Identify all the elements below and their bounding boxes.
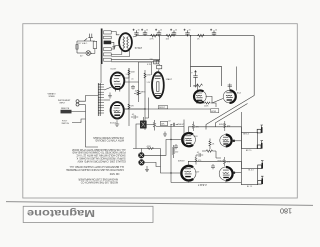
svg-text:1MEG: 1MEG: [140, 92, 146, 94]
junction dot y109: [144, 108, 145, 109]
junction square V7: [233, 140, 235, 142]
svg-text:6V6GT: 6V6GT: [178, 161, 185, 163]
resistor R16: [202, 150, 216, 152]
svg-text:20: 20: [175, 29, 177, 31]
speaker jack J7: [258, 176, 264, 184]
svg-text:.05: .05: [197, 152, 200, 154]
svg-text:INPUT: INPUT: [60, 102, 67, 104]
wire V1 to V3: [124, 62, 151, 82]
wire T2 top: [136, 117, 143, 149]
filter cap C1: [133, 29, 139, 36]
ground mid: [163, 132, 167, 137]
tap 5V heater a: [111, 51, 122, 55]
wire x160 junction: [161, 149, 172, 174]
wire P2 right: [145, 162, 161, 166]
svg-text:.02: .02: [135, 90, 138, 92]
wire V1 grid: [104, 87, 112, 90]
resistor R25 V8 screen: [195, 155, 197, 165]
filter cap C6: [210, 29, 216, 36]
wire V8 grid: [171, 172, 181, 174]
fuse F1: [76, 45, 78, 50]
resistor R20 on rail: [151, 34, 157, 37]
Magnatone logo box: [23, 206, 153, 222]
wire screen feed: [190, 36, 192, 67]
wire J2 to bus: [79, 104, 86, 106]
driver tube V4A: [194, 90, 206, 102]
wire rectifier cathode to rail: [133, 36, 137, 37]
tap HV bottom: [111, 46, 119, 50]
ground P stack: [145, 166, 149, 172]
ground V1 cathode: [108, 93, 112, 99]
wire V9 cathode: [225, 181, 227, 183]
vibrato transformer T2: [140, 121, 147, 129]
svg-text:4.7K: 4.7K: [150, 38, 155, 40]
wire V7 plate to loop: [232, 140, 242, 142]
resistor R11: [153, 120, 155, 131]
junction dot rail 2: [173, 35, 174, 36]
tap CT: [111, 42, 114, 47]
resistor R23 V6 screen: [192, 122, 194, 132]
preamp tube V3: [152, 72, 164, 98]
wire V6 grid: [171, 139, 182, 141]
transformer T1 secondary winding 3 (dark): [104, 41, 112, 45]
tap 5V heater b: [111, 51, 129, 57]
svg-text:SHOULD HOLD WITHIN 15% WITH 11: SHOULD HOLD WITHIN 15% WITH 117 V.AC: [76, 154, 125, 157]
svg-text:VOLTAGES SHOWN TAKEN: VOLTAGES SHOWN TAKEN: [93, 136, 124, 139]
resistor box R12: [161, 121, 168, 125]
AC line plug: [88, 34, 93, 41]
resistor R26 V9 screen: [223, 157, 225, 166]
speaker jack J5: [257, 141, 263, 149]
svg-text:180: 180: [280, 206, 292, 215]
speaker jack J6: [258, 161, 264, 169]
svg-text:WITH VTVM TO GROUND.: WITH VTVM TO GROUND.: [94, 139, 124, 142]
power tube V8: [181, 166, 196, 181]
speaker jack J4: [257, 125, 263, 133]
svg-text:20: 20: [189, 29, 191, 31]
wire J1 to grid bus: [79, 96, 98, 102]
junction dot grid bus: [170, 139, 171, 140]
svg-text:470: 470: [196, 127, 199, 129]
resistor R1: [128, 70, 130, 75]
transformer T1 primary: [93, 41, 97, 48]
svg-text:ALL VOLTAGES MEASURED WITH VTV: ALL VOLTAGES MEASURED WITH VTVM FROM: [72, 148, 125, 151]
svg-text:SWITCH: SWITCH: [62, 123, 70, 125]
svg-text:5Y3GT: 5Y3GT: [135, 48, 143, 50]
filter cap C3: [155, 29, 161, 36]
wire bus x138: [138, 82, 140, 102]
resistor R19: [157, 65, 162, 68]
cap C9: [171, 123, 179, 126]
svg-text:POINT INDICATED TO COMMON GROU: POINT INDICATED TO COMMON GROUND AND: [72, 151, 125, 154]
T2 highlight: [142, 122, 146, 127]
svg-text:6CG7: 6CG7: [111, 69, 117, 71]
phase jack P2: [138, 159, 144, 165]
switch SW1: [84, 38, 87, 41]
svg-text:BR 7.5: BR 7.5: [246, 150, 252, 152]
resistor R22 on rail: [198, 34, 204, 37]
tap HV top: [111, 32, 119, 35]
svg-text:SPEED: SPEED: [49, 96, 56, 98]
filter cap C4: [170, 29, 176, 36]
wire long bus y109: [124, 108, 211, 110]
screen supply box: [191, 67, 222, 88]
wire mid row: [147, 125, 184, 127]
wire V4B plate: [228, 67, 237, 91]
wire mid right: [216, 151, 221, 158]
wire foot switch: [72, 119, 86, 123]
wire phase bus top: [133, 149, 161, 153]
driver tube V4B: [223, 90, 236, 103]
wire primary top: [77, 40, 95, 42]
cap C13: [134, 92, 141, 95]
wire primary bottom: [91, 49, 95, 54]
tap 6.3V heater b: [111, 61, 160, 63]
wire B+ feed preamp: [159, 36, 161, 61]
choke L1 multi-tap winding: [98, 83, 104, 116]
bottom rule: [6, 202, 313, 206]
transformer T1 secondary winding 1: [104, 31, 112, 34]
svg-text:220K: 220K: [147, 75, 152, 77]
phase jack P1: [138, 152, 144, 158]
svg-text:SUPPLY. RESISTANCE VALUES IN O: SUPPLY. RESISTANCE VALUES IN OHMS. K: [76, 157, 126, 160]
filter cap C5: [184, 29, 190, 36]
wire grid bus left: [170, 124, 172, 183]
border frame: [23, 24, 298, 198]
wire V8 cathode: [187, 180, 189, 182]
svg-text:117 V.A.C.: 117 V.A.C.: [78, 42, 88, 45]
power tube V6: [182, 133, 195, 146]
svg-text:40: 40: [138, 29, 140, 31]
svg-text:OR 7200: OR 7200: [109, 172, 119, 175]
svg-text:100K: 100K: [131, 72, 136, 74]
wire bus x184: [183, 120, 185, 146]
wire P1 right: [144, 154, 160, 156]
resistor R4: [128, 104, 130, 109]
wire V8 plate loop: [188, 161, 241, 168]
wire transformer to choke: [100, 64, 102, 83]
cap C11: [174, 144, 178, 149]
svg-text:.02: .02: [168, 121, 171, 123]
diagonal wire D1: [206, 96, 254, 130]
svg-text:BL 6.3: BL 6.3: [248, 169, 253, 171]
junction dot grid bus 2: [170, 172, 171, 173]
part label box B: [211, 109, 219, 113]
wire bus x145: [144, 70, 146, 130]
svg-text:Magnatone: Magnatone: [27, 207, 95, 219]
junction dot rail 3: [187, 35, 188, 36]
speaker loop group 1: [241, 132, 257, 148]
cap C7 in screen box: [193, 71, 197, 86]
svg-text:220K: 220K: [204, 106, 209, 108]
svg-text:CAPACITOR VALUES IN MFD UNLESS: CAPACITOR VALUES IN MFD UNLESS OTHERWISE: [66, 168, 124, 171]
jack hatched J3: [61, 110, 72, 114]
junction dot rail 4: [190, 35, 191, 36]
junction dot rail 1: [158, 35, 159, 36]
svg-text:ALL RESISTORS 1/2 WATT UNLESS: ALL RESISTORS 1/2 WATT UNLESS NOTED. ALL: [69, 165, 124, 168]
preamp tube V1: [111, 73, 125, 92]
rectifier tube V5: [119, 33, 132, 51]
svg-text:20: 20: [146, 29, 148, 31]
wire AC left: [76, 41, 78, 53]
wire bus x148: [145, 98, 149, 119]
cap C12: [211, 164, 215, 169]
svg-text:MODEL 180 THE MAGNAVOX CO: MODEL 180 THE MAGNAVOX CO: [81, 181, 118, 184]
transformer T1 secondary winding 5: [104, 53, 112, 56]
resistor R18: [154, 61, 159, 64]
svg-text:470: 470: [227, 162, 230, 164]
wire J3 to bus: [72, 105, 99, 147]
svg-text:6V6GT: 6V6GT: [178, 124, 185, 126]
wire V2 plate: [124, 108, 145, 110]
svg-text:20: 20: [160, 29, 162, 31]
resistor R21 on rail: [166, 34, 172, 37]
wire V9 plate to loop: [233, 172, 242, 174]
wire V4A plate: [195, 84, 203, 91]
power tube V7: [220, 135, 232, 147]
resistor R2: [144, 73, 146, 78]
svg-text:.05: .05: [132, 114, 135, 116]
junction square V9: [233, 172, 235, 174]
wire R18-R19: [156, 61, 159, 72]
resistor R10: [205, 102, 210, 104]
wire grid row: [196, 103, 216, 107]
resistor R15: [209, 139, 211, 150]
wire V2 grid: [104, 99, 110, 101]
diagonal wire D2: [216, 104, 248, 128]
wire V1 plate: [124, 68, 129, 78]
cap C8: [131, 85, 135, 90]
svg-text:250: 250: [175, 152, 178, 154]
svg-text:BL 7.5: BL 7.5: [247, 186, 252, 188]
ground bus right: [240, 112, 242, 168]
wire V6 plate loop: [189, 127, 242, 133]
cap C10: [196, 153, 203, 156]
preamp tube V2: [111, 102, 124, 118]
part label box A: [158, 106, 167, 109]
B+ vertical drop right: [253, 36, 255, 96]
resistor R3: [137, 90, 139, 95]
wire V7 plate: [232, 140, 234, 142]
svg-text:REMOTE: REMOTE: [61, 108, 70, 110]
B+ rail: [136, 35, 255, 37]
wire V9 plate: [232, 173, 235, 175]
cap C14: [131, 115, 138, 118]
svg-text:10: 10: [215, 29, 217, 31]
transformer T1 secondary winding 4: [104, 48, 112, 51]
svg-text:2-6417: 2-6417: [198, 183, 207, 187]
svg-text:470: 470: [198, 160, 201, 162]
svg-text:.01: .01: [131, 79, 134, 81]
svg-text:EQUALS 1000. CAPACITORS IN MFD: EQUALS 1000. CAPACITORS IN MFD. 400V: [77, 159, 126, 162]
wire V4A-V4B coupling: [206, 96, 223, 103]
transformer T1 secondary winding 2: [104, 36, 112, 39]
wire AC bottom: [77, 52, 86, 54]
power tube V9: [219, 167, 232, 180]
notes text block (rotated 180): [66, 136, 126, 184]
svg-text:470K: 470K: [147, 146, 152, 148]
input jack J1: [76, 100, 79, 103]
wire phase to V6: [161, 140, 172, 156]
speaker loop group 2: [241, 168, 257, 184]
transformer T1 core: [101, 29, 103, 65]
ground CT: [112, 47, 115, 49]
tap 6.3V heater a: [111, 59, 160, 61]
wire bus x129: [128, 68, 130, 126]
svg-text:MAGNATONE CUSTOM AMPLIFIER.: MAGNATONE CUSTOM AMPLIFIER.: [77, 177, 117, 180]
ground V2 cathode: [115, 120, 119, 126]
transformer T1 secondary winding 6: [104, 58, 112, 61]
input jack J2: [76, 103, 79, 106]
resistor R13: [147, 147, 153, 149]
filter cap C2: [141, 29, 147, 36]
ground bus bottom: [171, 182, 241, 184]
resistor R24 V7 screen: [224, 121, 226, 131]
svg-text:12AX7: 12AX7: [166, 78, 173, 81]
resistor R14: [172, 145, 174, 158]
svg-text:470: 470: [227, 126, 230, 128]
pilot lamp I1: [86, 51, 91, 56]
svg-text:BR 6.3: BR 6.3: [243, 133, 249, 135]
svg-text:24D57: 24D57: [159, 107, 166, 109]
